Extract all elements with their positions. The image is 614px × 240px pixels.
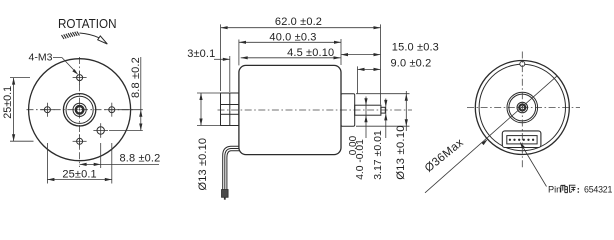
rotation arrow open head bbox=[98, 36, 108, 44]
svg-text:Ø13 ±0.10: Ø13 ±0.10 bbox=[197, 138, 209, 191]
CJK glyph xu bbox=[569, 185, 576, 192]
dim 4.5±0.10 bbox=[241, 47, 341, 59]
svg-text:Pin: Pin bbox=[548, 184, 561, 194]
motor outline circle bbox=[29, 59, 131, 161]
dim 9.0±0.2 bbox=[358, 57, 432, 93]
dim 4.0 tol vertical bbox=[348, 97, 368, 180]
horizontal centerline bbox=[467, 107, 580, 109]
shaft center dot bbox=[79, 109, 81, 111]
pin order leader bbox=[521, 144, 547, 187]
dim d13 right vertical bbox=[395, 91, 408, 180]
4-M3 leader bbox=[53, 58, 76, 73]
center boss outer ring bbox=[63, 94, 95, 126]
shaft hub circle bbox=[73, 103, 86, 116]
dim 25±0.1 vertical bbox=[2, 78, 33, 142]
svg-text:3±0.1: 3±0.1 bbox=[187, 48, 215, 60]
rotation arrow hatched tail bbox=[62, 32, 80, 40]
svg-text:4.5 ±0.10: 4.5 ±0.10 bbox=[287, 47, 334, 59]
lead wire 3 bbox=[227, 151, 239, 190]
inner ring bbox=[479, 64, 565, 150]
horizontal centerline bbox=[218, 109, 413, 111]
svg-text:3.17 ±0.01: 3.17 ±0.01 bbox=[372, 130, 384, 180]
left boss d13 bbox=[221, 93, 239, 126]
dim 25±0.1 horizontal bottom bbox=[47, 143, 111, 184]
dim d13 left vertical bbox=[197, 93, 221, 191]
CJK glyph shun bbox=[561, 185, 568, 193]
connector inner bbox=[507, 136, 537, 144]
right shaft d4 bbox=[355, 105, 381, 115]
pilot hole lower-right bbox=[93, 123, 108, 138]
lead wire 2 bbox=[225, 149, 239, 191]
d36 diagonal leader bbox=[425, 76, 558, 193]
right boss d13 bbox=[341, 94, 355, 127]
dim 8.8±0.2 horizontal bottom bbox=[80, 143, 161, 168]
rear shaft circle bbox=[517, 102, 528, 113]
dim 8.8±0.2 vertical right bbox=[109, 57, 143, 131]
svg-text:15.0 ±0.3: 15.0 ±0.3 bbox=[392, 42, 439, 54]
lead wire 1 bbox=[223, 146, 239, 190]
dim 15.0±0.3 bbox=[341, 42, 439, 57]
outer circle bbox=[475, 61, 569, 155]
dim 62.0±0.2 bbox=[221, 16, 381, 104]
rear boss ring bbox=[507, 92, 538, 123]
svg-text:8.8 ±0.2: 8.8 ±0.2 bbox=[130, 57, 142, 98]
dim 3±0.1 bbox=[187, 48, 230, 92]
left boss step line bbox=[229, 93, 231, 126]
motor body bbox=[239, 65, 341, 154]
vertical centerline bbox=[521, 52, 523, 169]
svg-text:Ø13 ±0.10: Ø13 ±0.10 bbox=[395, 125, 407, 179]
mounting hole left bbox=[40, 103, 54, 117]
svg-text:654321: 654321 bbox=[584, 184, 612, 194]
svg-text:40.0 ±0.3: 40.0 ±0.3 bbox=[269, 31, 316, 43]
svg-text:4-M3: 4-M3 bbox=[29, 52, 53, 64]
svg-text:25±0.1: 25±0.1 bbox=[62, 168, 96, 180]
svg-text:4.0 -0.01: 4.0 -0.01 bbox=[355, 139, 366, 180]
small top hole bbox=[520, 61, 525, 66]
connector outer bbox=[502, 131, 541, 148]
mounting hole bottom bbox=[73, 134, 87, 148]
horizontal centerline bbox=[27, 109, 134, 111]
svg-text:8.8 ±0.2: 8.8 ±0.2 bbox=[120, 153, 161, 165]
connector pins bbox=[509, 139, 534, 141]
mounting hole right bbox=[105, 103, 119, 117]
d36 leader arrow bbox=[481, 139, 487, 145]
right boss extension lines bbox=[356, 93, 410, 95]
vertical centerline bbox=[79, 57, 81, 167]
left shaft d4 bbox=[221, 105, 239, 115]
4-M3 leader arrow bbox=[72, 69, 78, 75]
svg-text:25±0.1: 25±0.1 bbox=[2, 86, 14, 119]
wire tip connector bbox=[222, 190, 229, 198]
rotation arrow arc bbox=[80, 33, 100, 38]
center boss inner ring bbox=[66, 96, 93, 123]
rear shaft dark ring bbox=[519, 105, 525, 111]
dim 3.17 vertical bbox=[372, 99, 388, 180]
svg-text:ROTATION: ROTATION bbox=[58, 16, 117, 31]
shaft dark ring bbox=[76, 106, 84, 114]
right shaft nub bbox=[381, 107, 385, 113]
rear boss inner ring bbox=[509, 94, 536, 121]
wire tip pin bbox=[224, 197, 226, 199]
svg-text:9.0 ±0.2: 9.0 ±0.2 bbox=[391, 57, 432, 69]
mounting hole top bbox=[73, 71, 87, 85]
colon bbox=[578, 188, 580, 193]
dim 40.0±0.3 bbox=[239, 31, 341, 65]
svg-text:62.0 ±0.2: 62.0 ±0.2 bbox=[275, 16, 322, 28]
